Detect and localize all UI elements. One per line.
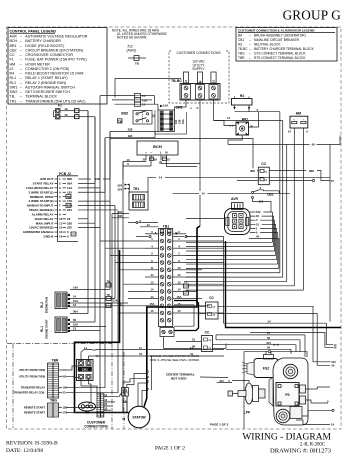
svg-text:–: – — [249, 47, 251, 51]
svg-text:56A: 56A — [73, 310, 78, 314]
transformer TR1 — [118, 183, 149, 210]
svg-text:HM: HM — [296, 111, 301, 115]
wire U loop to CC — [174, 301, 199, 331]
svg-text:194: 194 — [128, 134, 133, 138]
svg-text:2 WIRE START(1): 2 WIRE START(1) — [29, 190, 54, 194]
svg-text:238: 238 — [128, 128, 133, 132]
engine block FS — [269, 358, 308, 425]
svg-text:CB2: CB2 — [10, 48, 17, 52]
terminal TB1 bottom extension — [160, 328, 174, 337]
control panel legend box — [8, 28, 107, 105]
svg-text:TR1: TR1 — [133, 187, 139, 191]
svg-text:44: 44 — [190, 352, 193, 356]
svg-text:TBR: TBR — [238, 56, 245, 60]
svg-text:UTILITY FROM T/SW: UTILITY FROM T/SW — [19, 368, 46, 372]
svg-text:BCH: BCH — [153, 144, 162, 149]
svg-text:AUTOMATIC VOLTAGE REGULATOR: AUTOMATIC VOLTAGE REGULATOR — [25, 35, 87, 39]
svg-text:BATTERY CHARGER TERMINAL BLOCK: BATTERY CHARGER TERMINAL BLOCK — [254, 47, 315, 51]
svg-text:BR1: BR1 — [10, 44, 17, 48]
svg-text:−: − — [150, 151, 152, 155]
svg-text:15: 15 — [178, 266, 181, 270]
svg-text:E: E — [198, 80, 202, 82]
svg-text:15A: 15A — [177, 295, 182, 299]
svg-text:N1: N1 — [63, 368, 67, 372]
customer connection legend box — [236, 28, 337, 62]
wire stator leads — [144, 390, 147, 407]
resistor R4 — [232, 94, 253, 110]
svg-text:SW1: SW1 — [10, 85, 18, 89]
diode BR1 — [227, 116, 254, 135]
svg-text:–: – — [249, 56, 251, 60]
wire CC lower leads — [164, 337, 227, 349]
fuel pump LPP — [217, 379, 265, 415]
svg-text:GND-B: GND-B — [44, 235, 55, 239]
svg-text:239: 239 — [178, 119, 182, 124]
wire J2 pin stubs — [66, 183, 118, 236]
svg-text:R4: R4 — [240, 94, 244, 98]
svg-text:TBR: TBR — [52, 359, 59, 363]
svg-text:BCH: BCH — [10, 39, 18, 43]
svg-text:TRANSFER RELAY COIL: TRANSFER RELAY COIL — [14, 391, 46, 395]
svg-text:CONNECTOR 2 (ON PCB): CONNECTOR 2 (ON PCB) — [25, 67, 69, 71]
svg-text:13: 13 — [73, 327, 77, 331]
switch SW1 — [155, 103, 187, 134]
wire R4 to field boost — [235, 108, 280, 112]
svg-text:AVR: AVR — [231, 197, 238, 201]
svg-text:HOUR METER: HOUR METER — [25, 62, 50, 66]
wire engine right leads — [296, 387, 335, 427]
wire 0 and 14 below TR1 — [128, 210, 159, 227]
wire 14 long to right edge — [148, 175, 330, 192]
svg-text:178: 178 — [67, 199, 72, 203]
svg-text:5A: 5A — [154, 158, 157, 162]
svg-text:TB: TB — [107, 294, 110, 297]
svg-text:FIELD BOOST RESISTOR 15 OHM: FIELD BOOST RESISTOR 15 OHM — [25, 72, 83, 76]
wire TB1 top A/B feeds — [136, 230, 200, 238]
wire 14 vertical to engine — [186, 237, 337, 347]
svg-text:RELAY 1 (START RELAY): RELAY 1 (START RELAY) — [25, 76, 67, 80]
svg-text:CONNECTIONS: CONNECTIONS — [84, 424, 108, 428]
svg-text:–: – — [249, 38, 251, 42]
label customer connections bottom — [84, 421, 108, 429]
wire 14 TB1 to CC — [173, 191, 290, 195]
svg-text:TR1: TR1 — [10, 99, 17, 103]
svg-text:RELAY 2 (ENGINE RUN): RELAY 2 (ENGINE RUN) — [25, 81, 66, 85]
svg-text:15VAC SENSE(2): 15VAC SENSE(2) — [29, 226, 54, 230]
battery charger BCH — [137, 141, 178, 155]
wire TBR rows — [14, 368, 68, 395]
svg-text:CC: CC — [209, 296, 214, 300]
svg-text:MAN/AUTO INPUT: MAN/AUTO INPUT — [27, 204, 53, 208]
brush assembly BA — [122, 388, 129, 405]
svg-text:11: 11 — [59, 221, 62, 225]
circuit breaker CB2 — [251, 186, 279, 204]
svg-text:DATE: 12/04/98: DATE: 12/04/98 — [6, 448, 43, 454]
svg-text:15: 15 — [192, 338, 196, 342]
svg-text:14: 14 — [147, 223, 151, 227]
svg-text:R4: R4 — [10, 72, 15, 76]
svg-text:F1: F1 — [58, 104, 62, 108]
wire 621/56 to fuel solenoid — [213, 331, 306, 357]
relay RL2 — [40, 292, 70, 313]
svg-text:14A: 14A — [73, 286, 78, 290]
svg-text:238: 238 — [67, 221, 72, 225]
wire bundle ribbon bend — [186, 112, 303, 290]
switch SW2 — [118, 111, 156, 125]
fuse F1 — [54, 104, 63, 119]
svg-text:621: 621 — [267, 341, 272, 345]
fuel solenoid FS2 — [242, 351, 282, 378]
svg-text:14: 14 — [331, 423, 335, 427]
svg-text:FUSE, BAT POWER (15A ATO TYPE): FUSE, BAT POWER (15A ATO TYPE) — [25, 58, 86, 62]
wire AVR pin leads — [249, 202, 279, 239]
note center terminal — [166, 373, 228, 381]
voltage regulator AVR — [186, 197, 250, 235]
wire stack feeds — [100, 96, 158, 110]
svg-text:STATOR: STATOR — [132, 415, 146, 419]
svg-text:14: 14 — [178, 288, 181, 292]
svg-text:START RELAY: START RELAY — [33, 182, 54, 186]
svg-text:15: 15 — [64, 113, 68, 117]
svg-text:J2: J2 — [10, 67, 14, 71]
svg-text:56VAC SENSE(1): 56VAC SENSE(1) — [29, 208, 54, 212]
boundary customer connection dash-dot — [7, 344, 124, 430]
svg-text:N3: N3 — [238, 42, 242, 46]
svg-text:44: 44 — [178, 273, 181, 277]
svg-text:ENGINE START: ENGINE START — [45, 319, 49, 339]
svg-text:CB2: CB2 — [267, 193, 274, 197]
svg-text:194: 194 — [174, 119, 178, 124]
svg-text:15: 15 — [256, 222, 259, 226]
svg-text:14: 14 — [227, 116, 231, 120]
svg-text:SUPPLY: SUPPLY — [192, 67, 205, 71]
svg-text:13: 13 — [59, 230, 63, 234]
wire TB-BC down legs — [115, 79, 214, 227]
svg-text:14: 14 — [201, 191, 205, 195]
svg-text:–: – — [249, 52, 251, 56]
wire TBR/TBG to bus — [66, 366, 123, 413]
svg-text:UTILITY FROM T/SW: UTILITY FROM T/SW — [19, 374, 46, 378]
wire BR1 connections — [214, 112, 283, 145]
wire 194 — [105, 132, 155, 193]
svg-text:15: 15 — [142, 103, 146, 107]
svg-text:RL2: RL2 — [10, 81, 17, 85]
crossover connector CC upper — [258, 162, 269, 185]
wire thick runs — [75, 226, 201, 413]
terminal strip customer (bottom) — [97, 393, 104, 417]
svg-text:TBG: TBG — [50, 399, 57, 403]
svg-text:BRUSH ASSEMBLY (GENERATOR): BRUSH ASSEMBLY (GENERATOR) — [254, 33, 306, 37]
svg-text:MAN. INPUT: MAN. INPUT — [36, 221, 54, 225]
note wire gauge symbol — [128, 56, 146, 66]
customer connections box (top) — [169, 49, 229, 103]
relay RL1 — [40, 317, 70, 339]
svg-text:808: 808 — [67, 177, 72, 181]
svg-text:CROSSOVER CONNECTOR: CROSSOVER CONNECTOR — [25, 53, 73, 57]
svg-text:LO: LO — [211, 80, 215, 84]
svg-text:REVISION: H-3590-B: REVISION: H-3590-B — [6, 441, 58, 447]
svg-text:14: 14 — [267, 319, 271, 323]
svg-text:14: 14 — [151, 295, 154, 299]
svg-text:15A: 15A — [113, 300, 118, 303]
svg-text:SET EXERCISER SWITCH: SET EXERCISER SWITCH — [25, 90, 70, 94]
svg-text:CB1: CB1 — [238, 38, 244, 42]
svg-text:162: 162 — [256, 210, 261, 214]
svg-text:15A: 15A — [163, 103, 169, 107]
wire HM pins — [288, 130, 308, 134]
svg-text:XFER RELAY: XFER RELAY — [34, 217, 53, 221]
circuit breaker CB1 — [77, 360, 94, 381]
wire customer strip rows — [104, 392, 122, 410]
connector J2 on PCB — [23, 172, 78, 242]
svg-text:DRAWING #: 0H1273: DRAWING #: 0H1273 — [270, 448, 332, 455]
svg-text:13: 13 — [178, 280, 181, 284]
wire RL1 leads — [70, 318, 106, 343]
svg-text:14: 14 — [151, 288, 154, 292]
wire CC upper right side — [237, 168, 334, 183]
wire TR1 N1 N2 — [112, 210, 129, 344]
svg-text:14: 14 — [159, 175, 163, 179]
svg-text:44: 44 — [151, 273, 154, 277]
wire 11/44 to stator bus — [147, 346, 224, 356]
svg-text:(AWG): (AWG) — [127, 48, 137, 52]
svg-text:CC: CC — [10, 53, 16, 57]
svg-text:SW2: SW2 — [121, 112, 128, 116]
wire left bus — [88, 96, 123, 413]
crossover connector CC lower — [202, 330, 213, 351]
svg-text:12: 12 — [59, 226, 63, 230]
svg-text:BATTERY CHARGER: BATTERY CHARGER — [25, 39, 61, 43]
wire TBG rows — [24, 406, 68, 415]
svg-text:TRANSFORMER (5VA UTIL/15 VAC): TRANSFORMER (5VA UTIL/15 VAC) — [25, 99, 85, 103]
svg-text:NEUTRAL BLOCK: NEUTRAL BLOCK — [254, 42, 281, 46]
svg-text:CC: CC — [261, 162, 266, 166]
svg-text:CB1: CB1 — [82, 368, 88, 372]
svg-text:TBG: TBG — [238, 52, 245, 56]
svg-text:HM: HM — [10, 62, 16, 66]
svg-text:GTS CONNECT TERMINAL BLOCK: GTS CONNECT TERMINAL BLOCK — [254, 52, 307, 56]
svg-text:SW1: SW1 — [176, 106, 183, 110]
svg-text:15: 15 — [151, 309, 154, 313]
svg-text:224: 224 — [118, 187, 123, 191]
svg-text:SW2: SW2 — [10, 90, 18, 94]
svg-text:44: 44 — [139, 352, 142, 356]
svg-text:–: – — [249, 42, 251, 46]
svg-text:AUTO/OFF/MANUAL SWITCH: AUTO/OFF/MANUAL SWITCH — [25, 85, 75, 89]
svg-text:13: 13 — [151, 280, 154, 284]
svg-text:224: 224 — [67, 208, 72, 212]
terminal strip TBR — [48, 359, 60, 399]
svg-text:F1: F1 — [10, 58, 14, 62]
wire 238 — [110, 128, 158, 179]
svg-text:13: 13 — [126, 158, 130, 162]
svg-text:808: 808 — [309, 169, 314, 173]
svg-text:TB-BC: TB-BC — [238, 47, 248, 51]
wire F1 to TB boxes — [60, 107, 95, 183]
svg-text:CONTROL PANEL LEGEND: CONTROL PANEL LEGEND — [10, 29, 57, 33]
svg-text:PAGE 1 OF 2: PAGE 1 OF 2 — [210, 423, 229, 427]
svg-text:183: 183 — [67, 190, 72, 194]
svg-text:DIODE (FIELD BOOST): DIODE (FIELD BOOST) — [25, 44, 64, 48]
wire BCH pins — [143, 155, 171, 165]
svg-text:MAINLINE CIRCUIT BREAKER: MAINLINE CIRCUIT BREAKER — [254, 38, 300, 42]
svg-text:ENGINE RUN: ENGINE RUN — [45, 297, 49, 313]
svg-text:RL1: RL1 — [40, 326, 44, 332]
svg-text:FS2: FS2 — [263, 367, 269, 371]
svg-text:RL1: RL1 — [10, 76, 17, 80]
svg-text:15: 15 — [331, 179, 334, 183]
note single phase stator — [150, 354, 200, 362]
svg-text:L: L — [160, 151, 162, 155]
crossover connector CC mid — [199, 296, 337, 368]
svg-text:CUSTOMER CONNECTIONS: CUSTOMER CONNECTIONS — [176, 51, 221, 55]
svg-text:15: 15 — [267, 331, 270, 335]
svg-text:49: 49 — [311, 143, 315, 147]
svg-text:56: 56 — [73, 318, 77, 322]
svg-text:13: 13 — [64, 107, 68, 111]
svg-text:14: 14 — [73, 295, 77, 299]
svg-text:REMOTE START: REMOTE START — [24, 406, 45, 410]
svg-text:N2: N2 — [63, 374, 67, 378]
svg-text:TERMINAL BLOCK: TERMINAL BLOCK — [25, 95, 57, 99]
terminal block TB-BC — [171, 72, 220, 100]
svg-text:AVR OUT: AVR OUT — [40, 177, 54, 181]
svg-text:15: 15 — [178, 302, 181, 306]
svg-text:23: 23 — [63, 391, 66, 395]
svg-text:LPP: LPP — [244, 411, 251, 415]
wire TB1 right feeds — [186, 241, 224, 313]
svg-text:14A: 14A — [67, 186, 73, 190]
svg-text:14: 14 — [59, 235, 63, 239]
svg-text:FUEL(RUN) RELAY: FUEL(RUN) RELAY — [26, 186, 53, 190]
svg-text:ALARM RELAY: ALARM RELAY — [32, 212, 54, 216]
svg-text:13: 13 — [73, 303, 77, 307]
svg-text:56A: 56A — [67, 182, 73, 186]
svg-text:NOT USED: NOT USED — [171, 377, 187, 381]
svg-text:PAGE 1 OF 2: PAGE 1 OF 2 — [155, 446, 185, 452]
wire engine ground loop — [244, 352, 268, 429]
svg-text:TB-BC: TB-BC — [171, 79, 182, 83]
wire right rail — [329, 145, 331, 322]
svg-text:23A: 23A — [181, 119, 185, 124]
hour meter HM — [290, 111, 308, 128]
svg-text:–: – — [249, 33, 251, 37]
svg-text:TB: TB — [135, 62, 139, 66]
wire CB1 top leads — [81, 346, 152, 390]
wire BA leads — [123, 370, 150, 413]
wire heavy N feed — [226, 241, 342, 350]
svg-text:44: 44 — [256, 235, 259, 239]
svg-text:PCB J2: PCB J2 — [59, 172, 71, 176]
svg-text:FOR 3–PHASE SEE DWG. 0F8628.: FOR 3–PHASE SEE DWG. 0F8628. — [150, 358, 200, 362]
svg-text:EMISSIONS ENABLE: EMISSIONS ENABLE — [23, 230, 53, 234]
wire CB1 bottom leads — [81, 379, 97, 405]
svg-text:NOTED AS SHOWN:: NOTED AS SHOWN: — [117, 36, 147, 40]
svg-text:N: N — [165, 151, 167, 155]
svg-text:N2: N2 — [119, 214, 123, 218]
wire RL2 leads — [70, 286, 128, 314]
terminal TB1 rows — [145, 230, 186, 322]
svg-text:GROUP G: GROUP G — [283, 8, 342, 23]
connector stack 15/15A/15 — [135, 94, 149, 107]
note text — [112, 28, 167, 52]
svg-text:14: 14 — [288, 130, 292, 134]
svg-text:WIRING - DIAGRAM: WIRING - DIAGRAM — [242, 433, 331, 443]
svg-text:TB1: TB1 — [163, 224, 170, 228]
wire 808 AVR output — [79, 139, 259, 181]
junction TB boxes left of TB1 — [106, 280, 189, 307]
svg-text:16: 16 — [256, 214, 259, 218]
svg-text:+: + — [145, 151, 147, 155]
terminal strip TBG — [48, 399, 59, 418]
stator — [122, 406, 150, 428]
svg-text:56: 56 — [267, 336, 270, 340]
svg-text:TB..: TB.. — [10, 95, 17, 99]
svg-text:2 WIRE START(2): 2 WIRE START(2) — [29, 199, 54, 203]
svg-text:808: 808 — [250, 169, 255, 173]
svg-text:15A: 15A — [150, 302, 155, 306]
svg-text:MOMENT. OPEN: MOMENT. OPEN — [30, 195, 54, 199]
svg-text:N3: N3 — [85, 411, 89, 415]
svg-text:RL2: RL2 — [40, 302, 44, 308]
wire 13 and 0 from BCH — [123, 158, 200, 179]
svg-text:23: 23 — [67, 217, 71, 221]
svg-text:CIRCUIT BREAKER (EXCITATION): CIRCUIT BREAKER (EXCITATION) — [25, 48, 83, 52]
svg-text:56: 56 — [267, 346, 270, 350]
svg-text:CUSTOMER CONNECTION & ALTERNAT: CUSTOMER CONNECTION & ALTERNATOR LEGEND — [238, 29, 315, 33]
svg-text:REMOTE START: REMOTE START — [24, 411, 45, 415]
svg-text:15: 15 — [178, 309, 181, 313]
terminal strip TB1 — [154, 224, 178, 326]
svg-text:10: 10 — [59, 217, 63, 221]
svg-text:AVR: AVR — [10, 35, 18, 39]
svg-text:TRANSFER RELAY: TRANSFER RELAY — [21, 386, 45, 390]
wire 49 horizontal — [228, 136, 340, 147]
neutral block N3 — [79, 402, 96, 415]
svg-text:TB: TB — [107, 280, 110, 283]
svg-text:621: 621 — [332, 360, 337, 364]
svg-text:CC: CC — [205, 330, 210, 334]
svg-text:225: 225 — [67, 226, 72, 230]
wire TB1 left feeds — [100, 241, 145, 313]
svg-text:RTS CONNECT TERMINAL BLOCK: RTS CONNECT TERMINAL BLOCK — [254, 56, 306, 60]
